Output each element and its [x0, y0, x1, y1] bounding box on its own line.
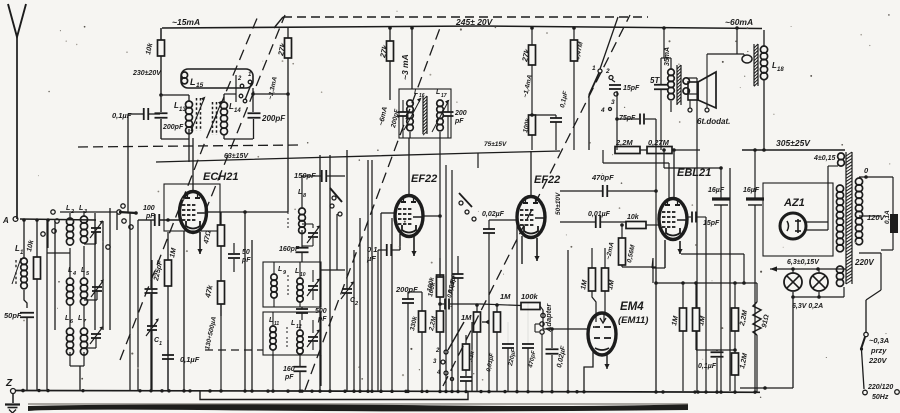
- svg-text:330k: 330k: [409, 315, 419, 331]
- svg-text:pF: pF: [145, 213, 155, 220]
- svg-text:50Hz: 50Hz: [872, 394, 889, 401]
- svg-text:305±25V: 305±25V: [776, 138, 811, 148]
- inductor L5: [80, 278, 87, 285]
- svg-text:0,01µF: 0,01µF: [588, 211, 611, 218]
- svg-text:EBL21: EBL21: [677, 167, 711, 179]
- inductor L4: [66, 278, 73, 285]
- svg-text:0,02µF: 0,02µF: [556, 345, 568, 369]
- ground bus: [16, 391, 761, 393]
- svg-text:1M: 1M: [169, 247, 178, 258]
- svg-text:47k: 47k: [203, 283, 215, 299]
- inductor L3: [80, 216, 87, 223]
- wire lamp bottoms: [792, 292, 794, 388]
- svg-text:1: 1: [159, 341, 162, 347]
- pilot lamp 2: [810, 273, 828, 291]
- svg-text:(EM11): (EM11): [618, 315, 648, 326]
- core L11/L12: [286, 327, 288, 333]
- wire riser to 245V dashed rail: [274, 17, 283, 28]
- svg-text:L: L: [78, 315, 82, 322]
- svg-text:~6mA: ~6mA: [378, 106, 389, 126]
- svg-text:L: L: [65, 315, 69, 322]
- svg-text:6t.dodat.: 6t.dodat.: [697, 117, 730, 126]
- svg-text:AZ1: AZ1: [783, 197, 805, 209]
- svg-text:200pF: 200pF: [261, 114, 286, 123]
- svg-text:4±0,15: 4±0,15: [813, 155, 835, 162]
- svg-text:4: 4: [72, 271, 76, 277]
- wire feedback to grid: [603, 162, 669, 164]
- wire EF22-2 anode: [530, 151, 532, 198]
- svg-text:4: 4: [436, 370, 441, 376]
- cathode arrow EF22-2: [536, 238, 538, 261]
- svg-text:0,1µF: 0,1µF: [559, 90, 570, 109]
- svg-text:6,3±0,15V: 6,3±0,15V: [787, 259, 820, 266]
- svg-text:2,2M: 2,2M: [739, 310, 749, 328]
- svg-text:160: 160: [283, 366, 295, 373]
- svg-text:~0,3A: ~0,3A: [869, 336, 889, 345]
- antenna: [8, 4, 26, 37]
- svg-text:0,02µF: 0,02µF: [482, 211, 505, 218]
- trimmer arrow L16: [404, 100, 420, 130]
- transformer 6.3V winding: [836, 266, 843, 273]
- dashed AVC rail: [78, 145, 302, 147]
- svg-text:pF: pF: [284, 374, 294, 381]
- svg-text:L: L: [295, 268, 299, 275]
- svg-text:10: 10: [300, 272, 306, 278]
- trimmer cap (L5): [92, 286, 102, 288]
- ground symbol: [12, 394, 14, 404]
- rectifier box AZ1: [763, 183, 833, 256]
- shield box ECH21: [164, 184, 220, 231]
- svg-text:130÷500µA: 130÷500µA: [204, 316, 218, 351]
- trimmer cap (L10): [308, 285, 318, 287]
- svg-text:9: 9: [283, 270, 287, 276]
- transformer HV secondary: [836, 185, 843, 192]
- wire 6.3V rail: [770, 268, 846, 270]
- svg-text:0,1µF: 0,1µF: [112, 111, 132, 120]
- svg-text:245± 20V: 245± 20V: [455, 17, 494, 27]
- svg-text:2,2M: 2,2M: [615, 138, 633, 147]
- svg-text:91Ω: 91Ω: [761, 313, 771, 328]
- svg-text:470pF: 470pF: [591, 173, 614, 182]
- svg-text:100k: 100k: [521, 292, 539, 301]
- vertical wires to ground bus: [46, 219, 48, 391]
- svg-text:0,1µF: 0,1µF: [180, 355, 200, 364]
- svg-text:16µF: 16µF: [708, 187, 725, 194]
- wire switch verticals: [54, 221, 56, 330]
- cathode arrow ECH21: [199, 232, 201, 254]
- svg-text:120V: 120V: [867, 213, 886, 222]
- core L13 dashes: [196, 98, 198, 131]
- dashed gang line 3: [443, 15, 630, 386]
- svg-text:15pF: 15pF: [623, 85, 640, 92]
- wire AZ1 filament: [806, 221, 828, 223]
- svg-text:200pF: 200pF: [162, 124, 184, 131]
- svg-text:2: 2: [237, 76, 242, 82]
- svg-text:10k: 10k: [26, 238, 36, 252]
- wire T1 to anode load: [253, 93, 288, 95]
- svg-text:1: 1: [592, 65, 596, 72]
- ground bus lower loop: [200, 391, 468, 400]
- svg-text:6,3V 0,2A: 6,3V 0,2A: [792, 303, 823, 310]
- svg-text:~60mA: ~60mA: [725, 17, 753, 27]
- ground bus junction dots: [21, 389, 24, 392]
- trimmer cap (L8): [308, 232, 318, 234]
- svg-text:2: 2: [435, 348, 440, 354]
- svg-text:1,2M: 1,2M: [739, 353, 749, 370]
- svg-text:17: 17: [441, 93, 447, 99]
- svg-text:0,56M: 0,56M: [626, 244, 637, 264]
- svg-text:0,1µF: 0,1µF: [698, 363, 717, 370]
- svg-text:przy: przy: [870, 346, 887, 355]
- wire EM4 grid: [543, 328, 589, 330]
- svg-text:1M: 1M: [500, 292, 511, 301]
- wire ECH21 anode: [192, 138, 194, 192]
- svg-text:~3 mA: ~3 mA: [400, 54, 410, 80]
- inductor L7: [80, 328, 87, 335]
- core L14 dashes: [212, 102, 214, 135]
- svg-text:16: 16: [419, 93, 425, 99]
- svg-text:L: L: [190, 77, 196, 87]
- lamp box: [800, 258, 846, 300]
- output transformer core: [676, 65, 678, 105]
- svg-text:Z: Z: [5, 378, 13, 389]
- svg-text:47Ω: 47Ω: [203, 229, 213, 245]
- svg-text:3: 3: [611, 99, 615, 106]
- wire output B+ drop: [663, 28, 665, 58]
- paper speckle noise: [292, 63, 294, 65]
- svg-text:~2mA: ~2mA: [605, 241, 616, 260]
- svg-text:18: 18: [777, 67, 784, 73]
- wire 305V rail: [742, 149, 845, 151]
- svg-text:220µF: 220µF: [508, 348, 518, 367]
- trimmer arrow L14: [208, 103, 221, 135]
- svg-text:5T: 5T: [650, 76, 660, 85]
- wire EF22-1 anode: [408, 138, 410, 197]
- wire speaker top: [707, 53, 744, 55]
- wire ECH21 plate right: [221, 211, 288, 213]
- dashed MW line: [205, 349, 263, 351]
- trimmer arrow L17: [432, 102, 448, 132]
- svg-text:Adapter: Adapter: [544, 303, 553, 333]
- wire from A: [20, 219, 96, 220]
- svg-text:200pF: 200pF: [395, 285, 418, 294]
- output transformer secondary: [683, 78, 689, 84]
- dashed gang line 1b: [205, 15, 285, 212]
- inductor L15 loop: [181, 69, 253, 88]
- wire box L9 to C2: [321, 269, 345, 271]
- scan edge band: [28, 404, 688, 411]
- svg-text:220/120: 220/120: [867, 384, 893, 391]
- inductor L2: [66, 218, 73, 225]
- svg-text:4: 4: [600, 107, 605, 114]
- svg-text:50pF: 50pF: [4, 311, 22, 320]
- mains switch: [866, 290, 881, 300]
- trimmer cap (L3): [91, 227, 101, 229]
- svg-text:L: L: [436, 89, 440, 96]
- svg-text:pF: pF: [454, 118, 464, 125]
- transformer primary: [855, 178, 862, 185]
- core L9/L10: [287, 275, 289, 281]
- band switch S1b: [332, 196, 336, 200]
- svg-text:470pF: 470pF: [528, 350, 538, 370]
- svg-text:L: L: [81, 267, 85, 274]
- svg-text:35mA: 35mA: [664, 47, 671, 66]
- svg-text:pF: pF: [241, 257, 251, 264]
- wire ~15mA B+ bus (top horizontal): [162, 26, 762, 29]
- switch S2 contacts: [459, 201, 463, 205]
- svg-text:0,01µF: 0,01µF: [486, 352, 496, 372]
- svg-text:0: 0: [864, 166, 869, 175]
- svg-text:16µF: 16µF: [743, 187, 760, 194]
- svg-text:~3,3mA: ~3,3mA: [267, 76, 279, 101]
- svg-text:A: A: [2, 216, 9, 225]
- svg-text:3: 3: [433, 359, 437, 365]
- svg-text:2: 2: [605, 68, 610, 75]
- svg-text:12: 12: [296, 324, 302, 330]
- speaker: [688, 82, 698, 100]
- svg-text:200: 200: [454, 110, 467, 117]
- svg-text:220V: 220V: [868, 356, 888, 365]
- svg-text:10k: 10k: [145, 41, 155, 55]
- svg-text:15: 15: [196, 82, 204, 89]
- svg-text:220V: 220V: [854, 258, 874, 267]
- IF transformer T2 box: [399, 89, 451, 138]
- wire cathode rail: [656, 282, 757, 284]
- svg-text:5: 5: [86, 271, 90, 277]
- transformer core: [845, 152, 847, 284]
- svg-text:230±20V: 230±20V: [132, 70, 162, 77]
- pilot lamp 1: [784, 273, 802, 291]
- svg-text:10k: 10k: [627, 214, 640, 221]
- wire EBL cathode link: [652, 258, 653, 283]
- svg-text:L: L: [79, 205, 83, 212]
- trimmer C2: [342, 288, 352, 290]
- wire screen rail: [156, 151, 560, 162]
- cathode arrow EBL21: [679, 241, 681, 254]
- IF coil box L11/L12: [263, 312, 321, 355]
- svg-text:100: 100: [143, 205, 155, 212]
- svg-text:L: L: [291, 320, 295, 327]
- svg-text:pF: pF: [317, 316, 327, 323]
- svg-text:EF22: EF22: [411, 173, 437, 185]
- trimmer cap (L12): [308, 336, 318, 338]
- wire 245±20V dashed rail: [283, 16, 648, 18]
- wire EBL21 anode: [673, 150, 675, 199]
- cathode legs EM4: [584, 352, 593, 391]
- switch contacts (antenna): [51, 210, 55, 214]
- terminal (extra speaker 2): [705, 108, 709, 112]
- svg-text:0,27M: 0,27M: [648, 138, 670, 147]
- svg-text:14: 14: [234, 108, 241, 114]
- svg-text:8: 8: [303, 193, 307, 199]
- dashed gang line 1: [120, 16, 258, 360]
- band switch S1a: [121, 204, 125, 208]
- svg-text:L: L: [66, 205, 70, 212]
- IF coil box L9/L10: [263, 262, 321, 307]
- svg-text:EM4: EM4: [620, 301, 644, 313]
- terminal (extra speaker 1): [688, 108, 692, 112]
- wire B+ to EBL screen: [663, 150, 665, 168]
- inductor L6: [66, 328, 73, 335]
- coupling loop: [742, 55, 752, 63]
- trimmer C1: [147, 325, 157, 327]
- cathode arrow EF22-1: [413, 236, 415, 256]
- output transformer primary: [668, 69, 675, 76]
- wire 75V drop: [477, 153, 479, 168]
- svg-text:~15mA: ~15mA: [172, 17, 200, 27]
- trimmer cap (L7): [91, 333, 101, 335]
- capacitor (tone 5T): [654, 84, 668, 86]
- svg-text:L: L: [278, 266, 282, 273]
- core T2: [422, 96, 424, 134]
- dashed gang line 2: [305, 28, 440, 390]
- svg-text:75±15V: 75±15V: [484, 141, 507, 148]
- svg-text:1M: 1M: [461, 313, 472, 322]
- svg-text:0,1A: 0,1A: [884, 210, 891, 224]
- svg-text:50: 50: [242, 249, 250, 256]
- svg-text:50±10V: 50±10V: [555, 192, 562, 215]
- wire center verticals: [319, 155, 321, 391]
- trimmer arrow L13: [191, 99, 204, 131]
